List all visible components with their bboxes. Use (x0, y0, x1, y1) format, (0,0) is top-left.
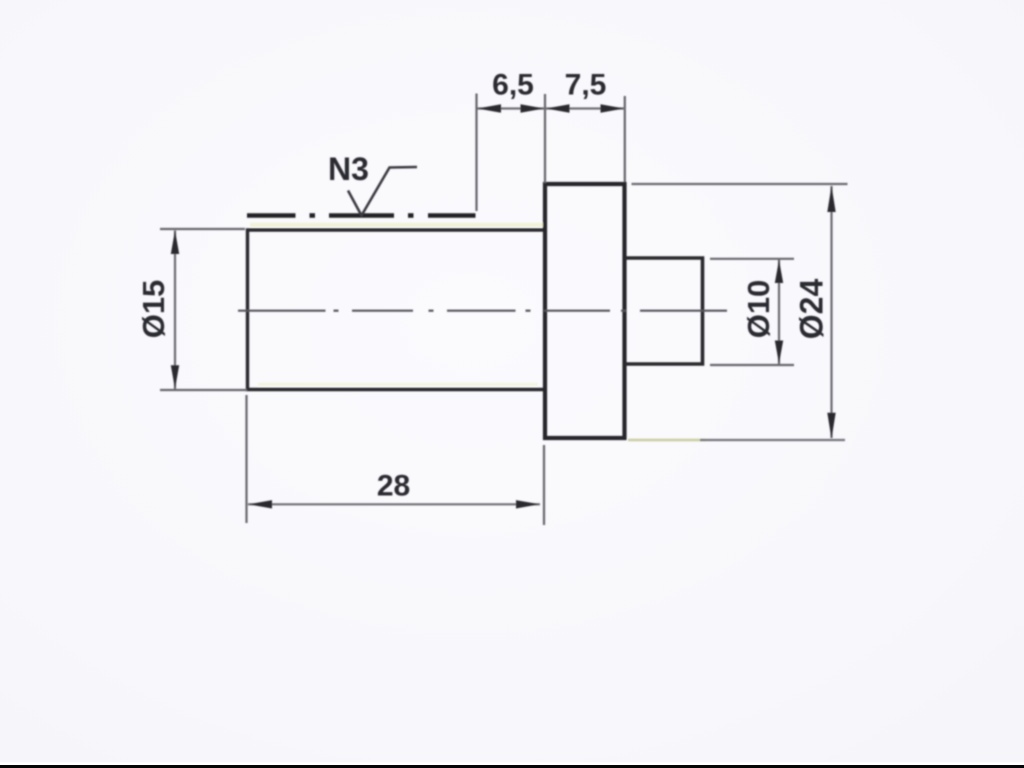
main body outline (Ø15 cylinder) (248, 230, 547, 390)
arrow 7,5 left (546, 104, 570, 113)
Ø15 extension line bottom (160, 389, 247, 391)
svg-text:Ø15: Ø15 (136, 280, 171, 339)
svg-text:Ø24: Ø24 (794, 279, 830, 340)
Ø10 extension line top (710, 258, 794, 260)
Ø24 arrow up (827, 186, 835, 212)
Ø15 arrow down (171, 365, 179, 389)
arrow 6,5 left (478, 104, 502, 113)
flange outline (Ø24) (545, 184, 625, 438)
28 dimension line (248, 503, 540, 505)
Ø24 dimension line (830, 186, 832, 438)
dimension extension line right (624, 96, 626, 182)
surface finish check symbol (348, 167, 417, 216)
arrow 7,5 right (601, 104, 625, 113)
Ø10 arrow up (775, 260, 783, 283)
dimension 6,5 extension line left (475, 94, 477, 212)
dimension extension line middle (544, 94, 546, 183)
pale yellow scan artifact above body bottom edge (258, 383, 538, 386)
Ø10 dimension line (778, 260, 780, 365)
chain line for N3 surface (thick dash-dot) (247, 213, 476, 218)
28 arrow right (516, 500, 540, 508)
28 extension line left (245, 395, 247, 523)
Ø24 extension line bottom gray part (700, 439, 845, 441)
Ø15 arrow up (171, 231, 179, 255)
Ø15 dimension line (174, 231, 176, 390)
Ø24 extension line top (632, 183, 848, 185)
svg-text:7,5: 7,5 (565, 69, 607, 102)
Ø10 arrow down (775, 341, 783, 364)
svg-text:28: 28 (377, 470, 410, 503)
centerline (dash-dot axis) (238, 310, 727, 312)
pale yellow scan artifact above body top edge (250, 223, 543, 227)
svg-text:Ø10: Ø10 (741, 280, 776, 339)
Ø24 extension line bottom yellowish part (628, 439, 706, 441)
Ø10 extension line bottom (710, 364, 794, 366)
small shaft outline (Ø10) (625, 258, 703, 364)
Ø24 arrow down (827, 413, 835, 439)
Ø15 extension line top (160, 228, 245, 230)
svg-text:N3: N3 (328, 151, 369, 187)
arrow 6,5 right (521, 104, 545, 113)
svg-text:6,5: 6,5 (492, 69, 534, 102)
top dimension line (477, 107, 625, 109)
bottom black bar (0, 765, 1024, 768)
28 extension line right (543, 445, 545, 525)
bottom white strip (0, 762, 1024, 765)
28 arrow left (249, 500, 272, 508)
